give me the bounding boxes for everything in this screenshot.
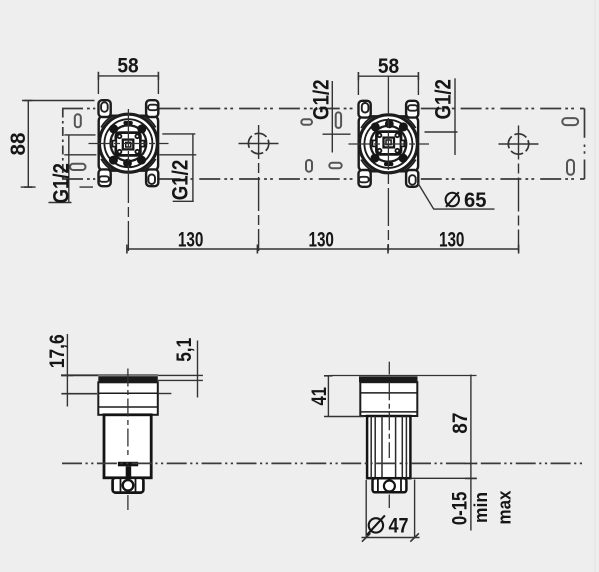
svg-text:G1/2: G1/2: [168, 160, 193, 201]
dimension 58 valve1: [98, 72, 158, 94]
valve U1: [98, 100, 158, 186]
G1/2 callout valve2 left: [323, 81, 351, 153]
centerline: [388, 362, 390, 375]
rail slots: [70, 112, 578, 174]
svg-text:min: min: [471, 492, 491, 523]
dimension 88: [21, 101, 95, 188]
svg-text:41: 41: [308, 387, 331, 406]
svg-text:87: 87: [449, 413, 472, 434]
rail top phantom line: [62, 108, 585, 110]
main phantom axis line (over bodies): [62, 462, 585, 464]
dimension 41: [324, 376, 364, 417]
rail left end: [62, 109, 64, 180]
slot pair P2: [301, 119, 312, 125]
svg-text:47: 47: [389, 515, 409, 538]
ribbed main body: [367, 416, 410, 478]
cap dark band: [359, 376, 418, 382]
T screw symbol: [118, 462, 138, 467]
svg-text:0-15: 0-15: [448, 491, 471, 525]
svg-text:65: 65: [464, 189, 487, 212]
svg-text:G1/2: G1/2: [309, 79, 334, 120]
dimension 87 / 0-15 line: [411, 375, 477, 531]
mid circle 1: [239, 125, 279, 251]
svg-text:130: 130: [178, 229, 204, 252]
dimension 5,1: [158, 341, 203, 398]
svg-text:G1/2: G1/2: [48, 163, 73, 204]
centerline: [127, 369, 129, 459]
svg-text:130: 130: [308, 229, 334, 252]
svg-text:58: 58: [117, 55, 139, 78]
rail right end: [584, 109, 586, 180]
svg-text:G1/2: G1/2: [430, 79, 455, 120]
mid circle 2: [499, 126, 539, 252]
diameter 65 callout: [417, 182, 494, 209]
long top extension line: [330, 375, 476, 377]
slot pair P3: [336, 112, 341, 128]
rail bottom phantom line: [62, 178, 585, 180]
svg-text:88: 88: [7, 132, 30, 155]
nut: [373, 478, 407, 492]
svg-text:5,1: 5,1: [173, 338, 196, 362]
slot pair P1: [75, 114, 81, 127]
G1/2 callout valve1 left: [49, 135, 97, 203]
nut: [113, 478, 144, 493]
G1/2 callout valve1 right: [159, 134, 196, 201]
cap dark band: [98, 376, 158, 382]
svg-text:58: 58: [378, 55, 400, 78]
diameter symbol 65: [446, 192, 459, 207]
diameter 47 dimension: [362, 480, 420, 542]
slot pair P4: [562, 118, 578, 125]
svg-text:max: max: [494, 491, 514, 525]
valve centerlines: [89, 76, 430, 251]
dimension 17,6: [61, 334, 98, 407]
dimension chain 130: [127, 245, 519, 254]
svg-text:17,6: 17,6: [46, 334, 69, 368]
main body: [104, 415, 151, 478]
upper box: [360, 382, 417, 416]
G1/2 callout valve2 right: [425, 78, 458, 155]
upper box: [98, 382, 158, 415]
valve U2 (rotated 180): [359, 101, 419, 187]
cap top line: [61, 374, 158, 376]
dimension 58 valve2: [358, 72, 418, 95]
svg-text:130: 130: [439, 229, 465, 252]
